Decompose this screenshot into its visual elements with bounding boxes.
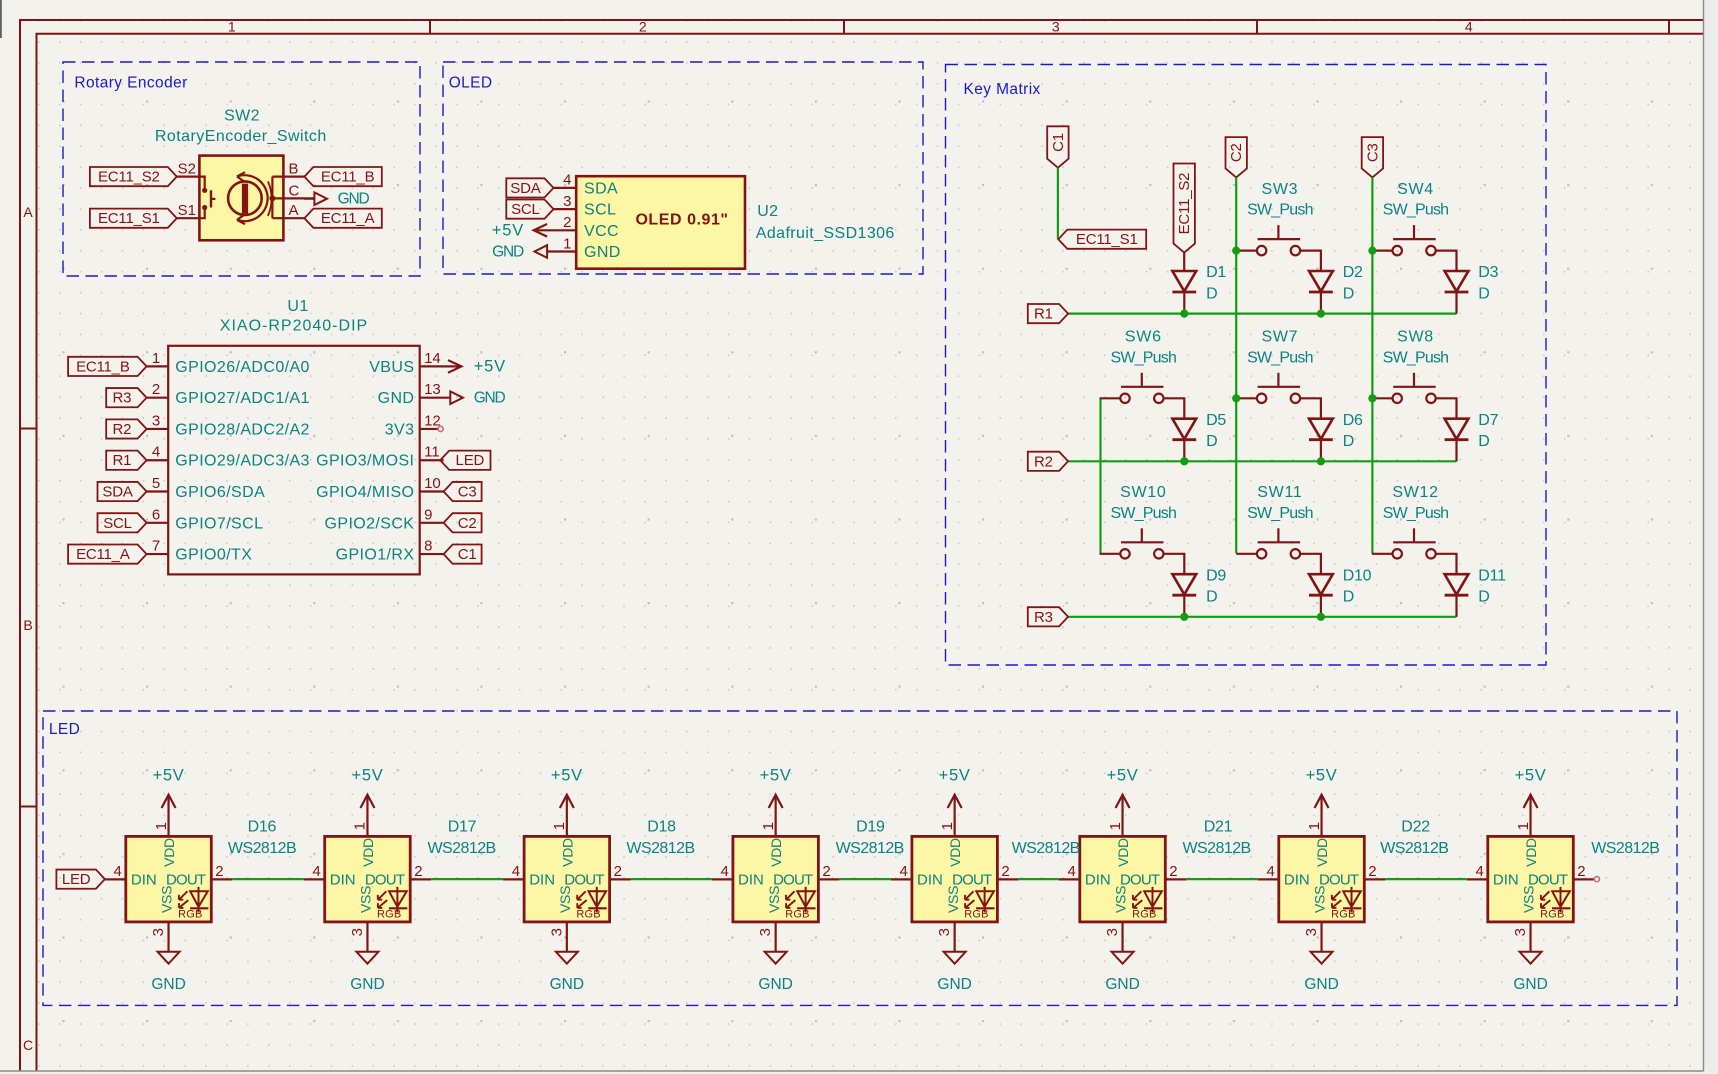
svg-text:D21: D21 <box>1204 819 1233 836</box>
section box OLED <box>443 62 923 274</box>
svg-text:SW_Push: SW_Push <box>1383 202 1449 219</box>
WS2812B LED chip 8 <box>1467 766 1595 993</box>
canvas edge bottom <box>0 1071 1718 1074</box>
svg-text:SDA: SDA <box>584 180 618 197</box>
global label SCL <box>506 200 553 219</box>
svg-text:OLED 0.91": OLED 0.91" <box>635 212 728 229</box>
svg-text:SW4: SW4 <box>1397 181 1434 198</box>
svg-text:C3: C3 <box>1364 143 1381 162</box>
svg-text:D22: D22 <box>1401 819 1430 836</box>
svg-text:4: 4 <box>563 172 571 189</box>
global label EC11_S1 <box>90 209 177 228</box>
arc arrow top <box>237 172 245 181</box>
WS2812B LED chip 4 <box>712 766 840 993</box>
rotary encoder SW2 body <box>199 156 283 241</box>
svg-text:Rotary Encoder: Rotary Encoder <box>74 75 187 92</box>
svg-text:WS2812B: WS2812B <box>1380 840 1448 857</box>
svg-text:WS2812B: WS2812B <box>626 840 694 857</box>
svg-text:R1: R1 <box>1034 306 1053 323</box>
svg-text:R1: R1 <box>113 452 132 469</box>
wire DOUT4 to DIN5 <box>839 878 891 880</box>
svg-text:D: D <box>1478 285 1490 302</box>
encoder rotation arc <box>237 175 268 221</box>
svg-text:EC11_A: EC11_A <box>76 546 130 563</box>
svg-text:SW_Push: SW_Push <box>1111 505 1177 522</box>
svg-text:3: 3 <box>1052 19 1060 35</box>
svg-text:GND: GND <box>474 390 506 407</box>
svg-text:GND: GND <box>338 191 370 208</box>
svg-text:GND: GND <box>492 244 524 261</box>
diode D1 <box>1172 271 1196 314</box>
svg-text:8: 8 <box>424 538 432 555</box>
svg-text:WS2812B: WS2812B <box>1591 840 1659 857</box>
encoder contact bracket <box>271 177 273 219</box>
svg-text:Adafruit_SSD1306: Adafruit_SSD1306 <box>756 225 895 242</box>
svg-text:WS2812B: WS2812B <box>228 840 296 857</box>
svg-text:1: 1 <box>152 350 160 367</box>
U1 pin 5 <box>147 490 169 492</box>
U1 pin 7 <box>147 553 169 555</box>
svg-text:D18: D18 <box>647 819 676 836</box>
ruler tick top <box>429 20 431 34</box>
svg-text:LED: LED <box>456 452 485 469</box>
U1 pin 12 <box>420 428 438 430</box>
svg-text:D: D <box>1478 433 1490 450</box>
global label SCL at U1 <box>98 513 147 532</box>
global label LED at U1 <box>440 451 490 470</box>
section box LED <box>43 711 1677 1005</box>
junction row at x=1320.9 <box>1317 613 1325 621</box>
wire DOUT2 to DIN3 <box>431 878 503 880</box>
svg-text:SW_Push: SW_Push <box>1247 349 1313 366</box>
svg-text:B: B <box>289 161 299 178</box>
wire column C3 <box>1371 177 1373 553</box>
global label EC11_S2 <box>90 167 177 186</box>
svg-text:C2: C2 <box>458 515 477 532</box>
diode D5 <box>1172 419 1196 462</box>
svg-text:EC11_S2: EC11_S2 <box>98 169 160 186</box>
svg-text:+5V: +5V <box>492 221 524 239</box>
svg-text:SW2: SW2 <box>224 108 260 125</box>
svg-text:D: D <box>1478 589 1490 606</box>
svg-text:WS2812B: WS2812B <box>1182 840 1250 857</box>
encoder wiper dot <box>269 195 275 201</box>
diode D3 <box>1445 271 1469 314</box>
svg-text:GPIO28/ADC2/A2: GPIO28/ADC2/A2 <box>175 421 310 438</box>
SW2 pin S2 <box>177 176 200 178</box>
svg-text:LED: LED <box>49 721 80 738</box>
U1 pin 11 <box>420 459 444 461</box>
switch SW12 <box>1372 528 1457 574</box>
WS2812B LED chip 2 <box>304 766 432 993</box>
svg-text:10: 10 <box>424 475 441 492</box>
svg-text:C1: C1 <box>1050 133 1067 152</box>
wire DOUT3 to DIN4 <box>631 878 712 880</box>
svg-text:D11: D11 <box>1478 567 1506 584</box>
global label EC11_A at U1 <box>68 544 147 563</box>
svg-text:WS2812B: WS2812B <box>1012 840 1080 857</box>
global label LED <box>56 870 105 889</box>
svg-text:EC11_S2: EC11_S2 <box>1176 173 1193 235</box>
canvas edge right <box>1704 0 1718 1074</box>
svg-text:D1: D1 <box>1206 264 1226 281</box>
svg-text:SW6: SW6 <box>1125 329 1162 346</box>
svg-text:A: A <box>23 204 33 220</box>
switch SW6 <box>1100 373 1185 419</box>
switch SW3 <box>1236 225 1321 271</box>
power +5V at U2 VCC <box>534 229 577 231</box>
svg-text:2: 2 <box>152 381 160 398</box>
WS2812B LED chip 7 <box>1258 766 1386 993</box>
scrollbar remnant top-left <box>0 0 2 38</box>
WS2812B LED chip 6 <box>1059 766 1187 993</box>
svg-text:D: D <box>1206 285 1218 302</box>
WS2812B LED chip 3 <box>503 766 631 993</box>
svg-text:SDA: SDA <box>102 484 132 501</box>
switch SW4 <box>1372 225 1457 271</box>
wire col1 SW6-SW10 <box>1099 398 1101 554</box>
svg-text:D9: D9 <box>1206 567 1226 584</box>
wire DOUT1 to DIN2 <box>232 878 303 880</box>
svg-text:R2: R2 <box>1034 453 1053 470</box>
svg-text:C2: C2 <box>1228 143 1245 162</box>
junction row at x=1320.9 <box>1317 457 1325 465</box>
power GND at U1 GND <box>420 397 451 399</box>
switch actuator bar <box>210 190 212 207</box>
svg-text:2: 2 <box>639 19 647 35</box>
svg-text:GND: GND <box>584 244 621 261</box>
svg-text:13: 13 <box>424 381 441 398</box>
svg-text:D16: D16 <box>248 819 277 836</box>
global label EC11_B <box>304 167 381 186</box>
OLED U2 body <box>576 176 745 269</box>
svg-text:D: D <box>1343 285 1355 302</box>
svg-text:SW12: SW12 <box>1392 484 1438 501</box>
global label C3 at U1 <box>444 482 482 501</box>
section box Key Matrix <box>946 65 1547 666</box>
svg-text:D6: D6 <box>1343 412 1363 429</box>
wire DOUT6 to DIN7 <box>1186 878 1258 880</box>
svg-text:3: 3 <box>563 193 571 210</box>
svg-text:VBUS: VBUS <box>369 359 414 376</box>
svg-text:4: 4 <box>1465 19 1473 35</box>
global label EC11_A <box>304 209 381 228</box>
svg-text:EC11_B: EC11_B <box>76 358 130 375</box>
switch SW10 <box>1100 528 1185 574</box>
svg-text:SW_Push: SW_Push <box>1247 505 1313 522</box>
svg-text:GPIO0/TX: GPIO0/TX <box>175 547 252 564</box>
svg-text:1: 1 <box>563 235 571 252</box>
U2 pin 4 SDA <box>554 187 577 189</box>
svg-text:D: D <box>1206 589 1218 606</box>
svg-text:7: 7 <box>152 538 160 555</box>
U1 pin 8 <box>420 553 444 555</box>
switch contact dot bottom <box>202 205 207 210</box>
svg-text:EC11_S1: EC11_S1 <box>1076 231 1138 248</box>
svg-text:EC11_B: EC11_B <box>321 169 375 186</box>
svg-text:Key Matrix: Key Matrix <box>964 81 1041 98</box>
switch actuator handle <box>211 198 215 200</box>
svg-text:S2: S2 <box>178 161 196 178</box>
unconnected pin 12 marker <box>438 426 443 431</box>
svg-text:C3: C3 <box>458 484 477 501</box>
svg-text:EC11_A: EC11_A <box>321 210 375 227</box>
ruler tick left <box>20 428 37 430</box>
global label EC11_S1 in key matrix <box>1058 230 1146 249</box>
svg-text:D17: D17 <box>448 819 477 836</box>
svg-text:GPIO7/SCL: GPIO7/SCL <box>175 515 263 532</box>
svg-text:SW3: SW3 <box>1262 181 1299 198</box>
diode D7 <box>1445 419 1469 462</box>
svg-text:XIAO-RP2040-DIP: XIAO-RP2040-DIP <box>220 317 368 334</box>
junction row at x=1184.3 <box>1180 613 1188 621</box>
svg-text:3: 3 <box>152 412 160 429</box>
WS2812B LED chip 1 <box>105 766 233 993</box>
diode D2 <box>1309 271 1333 314</box>
diode D9 <box>1172 574 1196 617</box>
global label SDA <box>506 178 553 197</box>
global label EC11_S2 in key matrix <box>1174 164 1195 253</box>
SW2 pin A <box>272 217 304 219</box>
svg-text:SW10: SW10 <box>1120 484 1166 501</box>
svg-text:SCL: SCL <box>103 515 132 532</box>
svg-text:GPIO27/ADC1/A1: GPIO27/ADC1/A1 <box>175 390 310 407</box>
global label C2 at U1 <box>444 513 482 532</box>
svg-text:GPIO4/MISO: GPIO4/MISO <box>316 484 414 501</box>
svg-text:SW_Push: SW_Push <box>1247 202 1313 219</box>
switch SW8 <box>1372 373 1457 419</box>
svg-text:SDA: SDA <box>510 180 540 197</box>
svg-text:A: A <box>289 202 299 219</box>
wire DOUT5 to DIN6 <box>1018 878 1058 880</box>
svg-text:14: 14 <box>424 350 441 367</box>
svg-text:GPIO29/ADC3/A3: GPIO29/ADC3/A3 <box>175 453 310 470</box>
switch contact dot top <box>202 188 207 193</box>
svg-text:R2: R2 <box>113 421 132 438</box>
svg-text:U1: U1 <box>287 298 308 315</box>
SW2 pin S1 <box>177 217 200 219</box>
diode D6 <box>1309 419 1333 462</box>
svg-text:9: 9 <box>424 506 432 523</box>
SW2 pin B <box>272 176 304 178</box>
diode D11 <box>1445 574 1469 617</box>
ruler tick top <box>1256 20 1258 34</box>
global label R2 <box>1028 452 1068 471</box>
svg-text:GPIO26/ADC0/A0: GPIO26/ADC0/A0 <box>175 359 310 376</box>
U2 pin 3 SCL <box>554 208 577 210</box>
svg-text:S1: S1 <box>178 202 196 219</box>
svg-text:SCL: SCL <box>511 201 540 218</box>
WS2812B LED chip 5 <box>891 766 1019 993</box>
global label R1 at U1 <box>106 451 146 470</box>
svg-text:D: D <box>1343 433 1355 450</box>
U1 pin 4 <box>147 459 169 461</box>
junction column at x=1372.4 <box>1368 247 1376 255</box>
svg-text:B: B <box>23 617 33 633</box>
junction row at x=1184.3 <box>1180 457 1188 465</box>
ruler tick top <box>843 20 845 34</box>
svg-text:R3: R3 <box>1034 609 1053 626</box>
svg-text:GPIO1/RX: GPIO1/RX <box>336 547 415 564</box>
switch SW7 <box>1236 373 1321 419</box>
svg-text:D3: D3 <box>1478 264 1498 281</box>
svg-text:D10: D10 <box>1343 567 1372 584</box>
U1 pin 6 <box>147 522 169 524</box>
unconnected DOUT of last chip <box>1594 877 1599 882</box>
svg-text:D19: D19 <box>856 819 885 836</box>
svg-text:3V3: 3V3 <box>385 421 415 438</box>
svg-text:5: 5 <box>152 475 160 492</box>
svg-text:SW_Push: SW_Push <box>1111 349 1177 366</box>
U1 pin 3 <box>147 428 169 430</box>
svg-text:R3: R3 <box>113 390 132 407</box>
global label EC11_B at U1 <box>68 357 147 376</box>
SW2 pin C <box>272 197 314 199</box>
svg-text:D5: D5 <box>1206 412 1226 429</box>
svg-text:SW7: SW7 <box>1262 329 1299 346</box>
svg-text:LED: LED <box>62 871 91 888</box>
global label C1 <box>1047 126 1068 167</box>
power GND at U2 GND <box>547 250 576 252</box>
junction column at x=1236.2 <box>1232 394 1240 402</box>
junction row at x=1184.3 <box>1180 310 1188 318</box>
svg-text:C: C <box>289 182 300 199</box>
global label R2 at U1 <box>106 419 146 438</box>
svg-text:C: C <box>23 1037 34 1053</box>
junction column at x=1236.2 <box>1232 247 1240 255</box>
encoder wiper arc <box>268 181 272 216</box>
U1 pin 10 <box>420 490 444 492</box>
switch contact S1 lead <box>199 210 204 218</box>
global label R1 <box>1028 304 1068 323</box>
svg-text:SW8: SW8 <box>1397 329 1434 346</box>
ruler tick top <box>1668 20 1670 34</box>
U1 pin 1 <box>147 365 169 367</box>
svg-text:+5V: +5V <box>474 357 506 375</box>
svg-text:C1: C1 <box>458 546 477 563</box>
wire C1 to EC11_S1 <box>1057 168 1059 240</box>
global label C3 <box>1362 137 1383 177</box>
U1 pin 2 <box>147 397 169 399</box>
svg-text:SW_Push: SW_Push <box>1383 505 1449 522</box>
switch contact S2 lead <box>199 177 204 188</box>
svg-text:11: 11 <box>424 444 440 461</box>
svg-text:D2: D2 <box>1343 264 1363 281</box>
svg-text:GPIO2/SCK: GPIO2/SCK <box>325 515 415 532</box>
junction column at x=1372.4 <box>1368 394 1376 402</box>
svg-text:SW11: SW11 <box>1257 484 1302 501</box>
U1 body <box>168 346 420 575</box>
svg-text:OLED: OLED <box>449 75 493 92</box>
global label C2 <box>1226 137 1247 177</box>
svg-text:SW_Push: SW_Push <box>1383 349 1449 366</box>
svg-text:6: 6 <box>152 506 160 523</box>
global label R3 <box>1028 607 1068 626</box>
wire EC11_S2 to D1 <box>1183 253 1185 271</box>
U1 pin 9 <box>420 522 444 524</box>
svg-text:GPIO3/MOSI: GPIO3/MOSI <box>316 453 414 470</box>
svg-text:EC11_S1: EC11_S1 <box>98 210 160 227</box>
svg-text:GPIO6/SDA: GPIO6/SDA <box>175 484 265 501</box>
arc arrow bottom <box>237 215 245 224</box>
diode D10 <box>1309 574 1333 617</box>
svg-text:WS2812B: WS2812B <box>836 840 904 857</box>
switch SW11 <box>1236 528 1321 574</box>
svg-text:D7: D7 <box>1478 412 1498 429</box>
encoder knob bar <box>242 184 248 214</box>
svg-text:2: 2 <box>563 214 571 231</box>
power GND at SW2 pin C <box>304 198 314 200</box>
global label C1 at U1 <box>444 544 482 563</box>
section box Rotary Encoder <box>63 62 420 276</box>
wire DOUT7 to DIN8 <box>1385 878 1467 880</box>
svg-text:WS2812B: WS2812B <box>427 840 495 857</box>
svg-text:SCL: SCL <box>584 202 616 219</box>
encoder knob circle <box>228 181 262 215</box>
svg-text:D: D <box>1206 433 1218 450</box>
svg-text:GND: GND <box>378 390 415 407</box>
wire row R1 <box>1068 313 1456 315</box>
global label R3 at U1 <box>106 388 146 407</box>
svg-text:4: 4 <box>152 444 160 461</box>
svg-text:D: D <box>1343 589 1355 606</box>
power +5V at U1 VBUS <box>420 365 462 367</box>
ruler tick left <box>20 806 37 808</box>
wire column C2 <box>1235 177 1237 553</box>
svg-text:1: 1 <box>228 19 236 35</box>
junction row at x=1320.9 <box>1317 310 1325 318</box>
wire row R2 <box>1068 460 1456 462</box>
wire row R3 <box>1068 616 1456 618</box>
svg-text:RotaryEncoder_Switch: RotaryEncoder_Switch <box>155 128 327 145</box>
svg-text:U2: U2 <box>757 203 778 220</box>
global label SDA at U1 <box>98 482 147 501</box>
svg-text:VCC: VCC <box>584 223 619 240</box>
